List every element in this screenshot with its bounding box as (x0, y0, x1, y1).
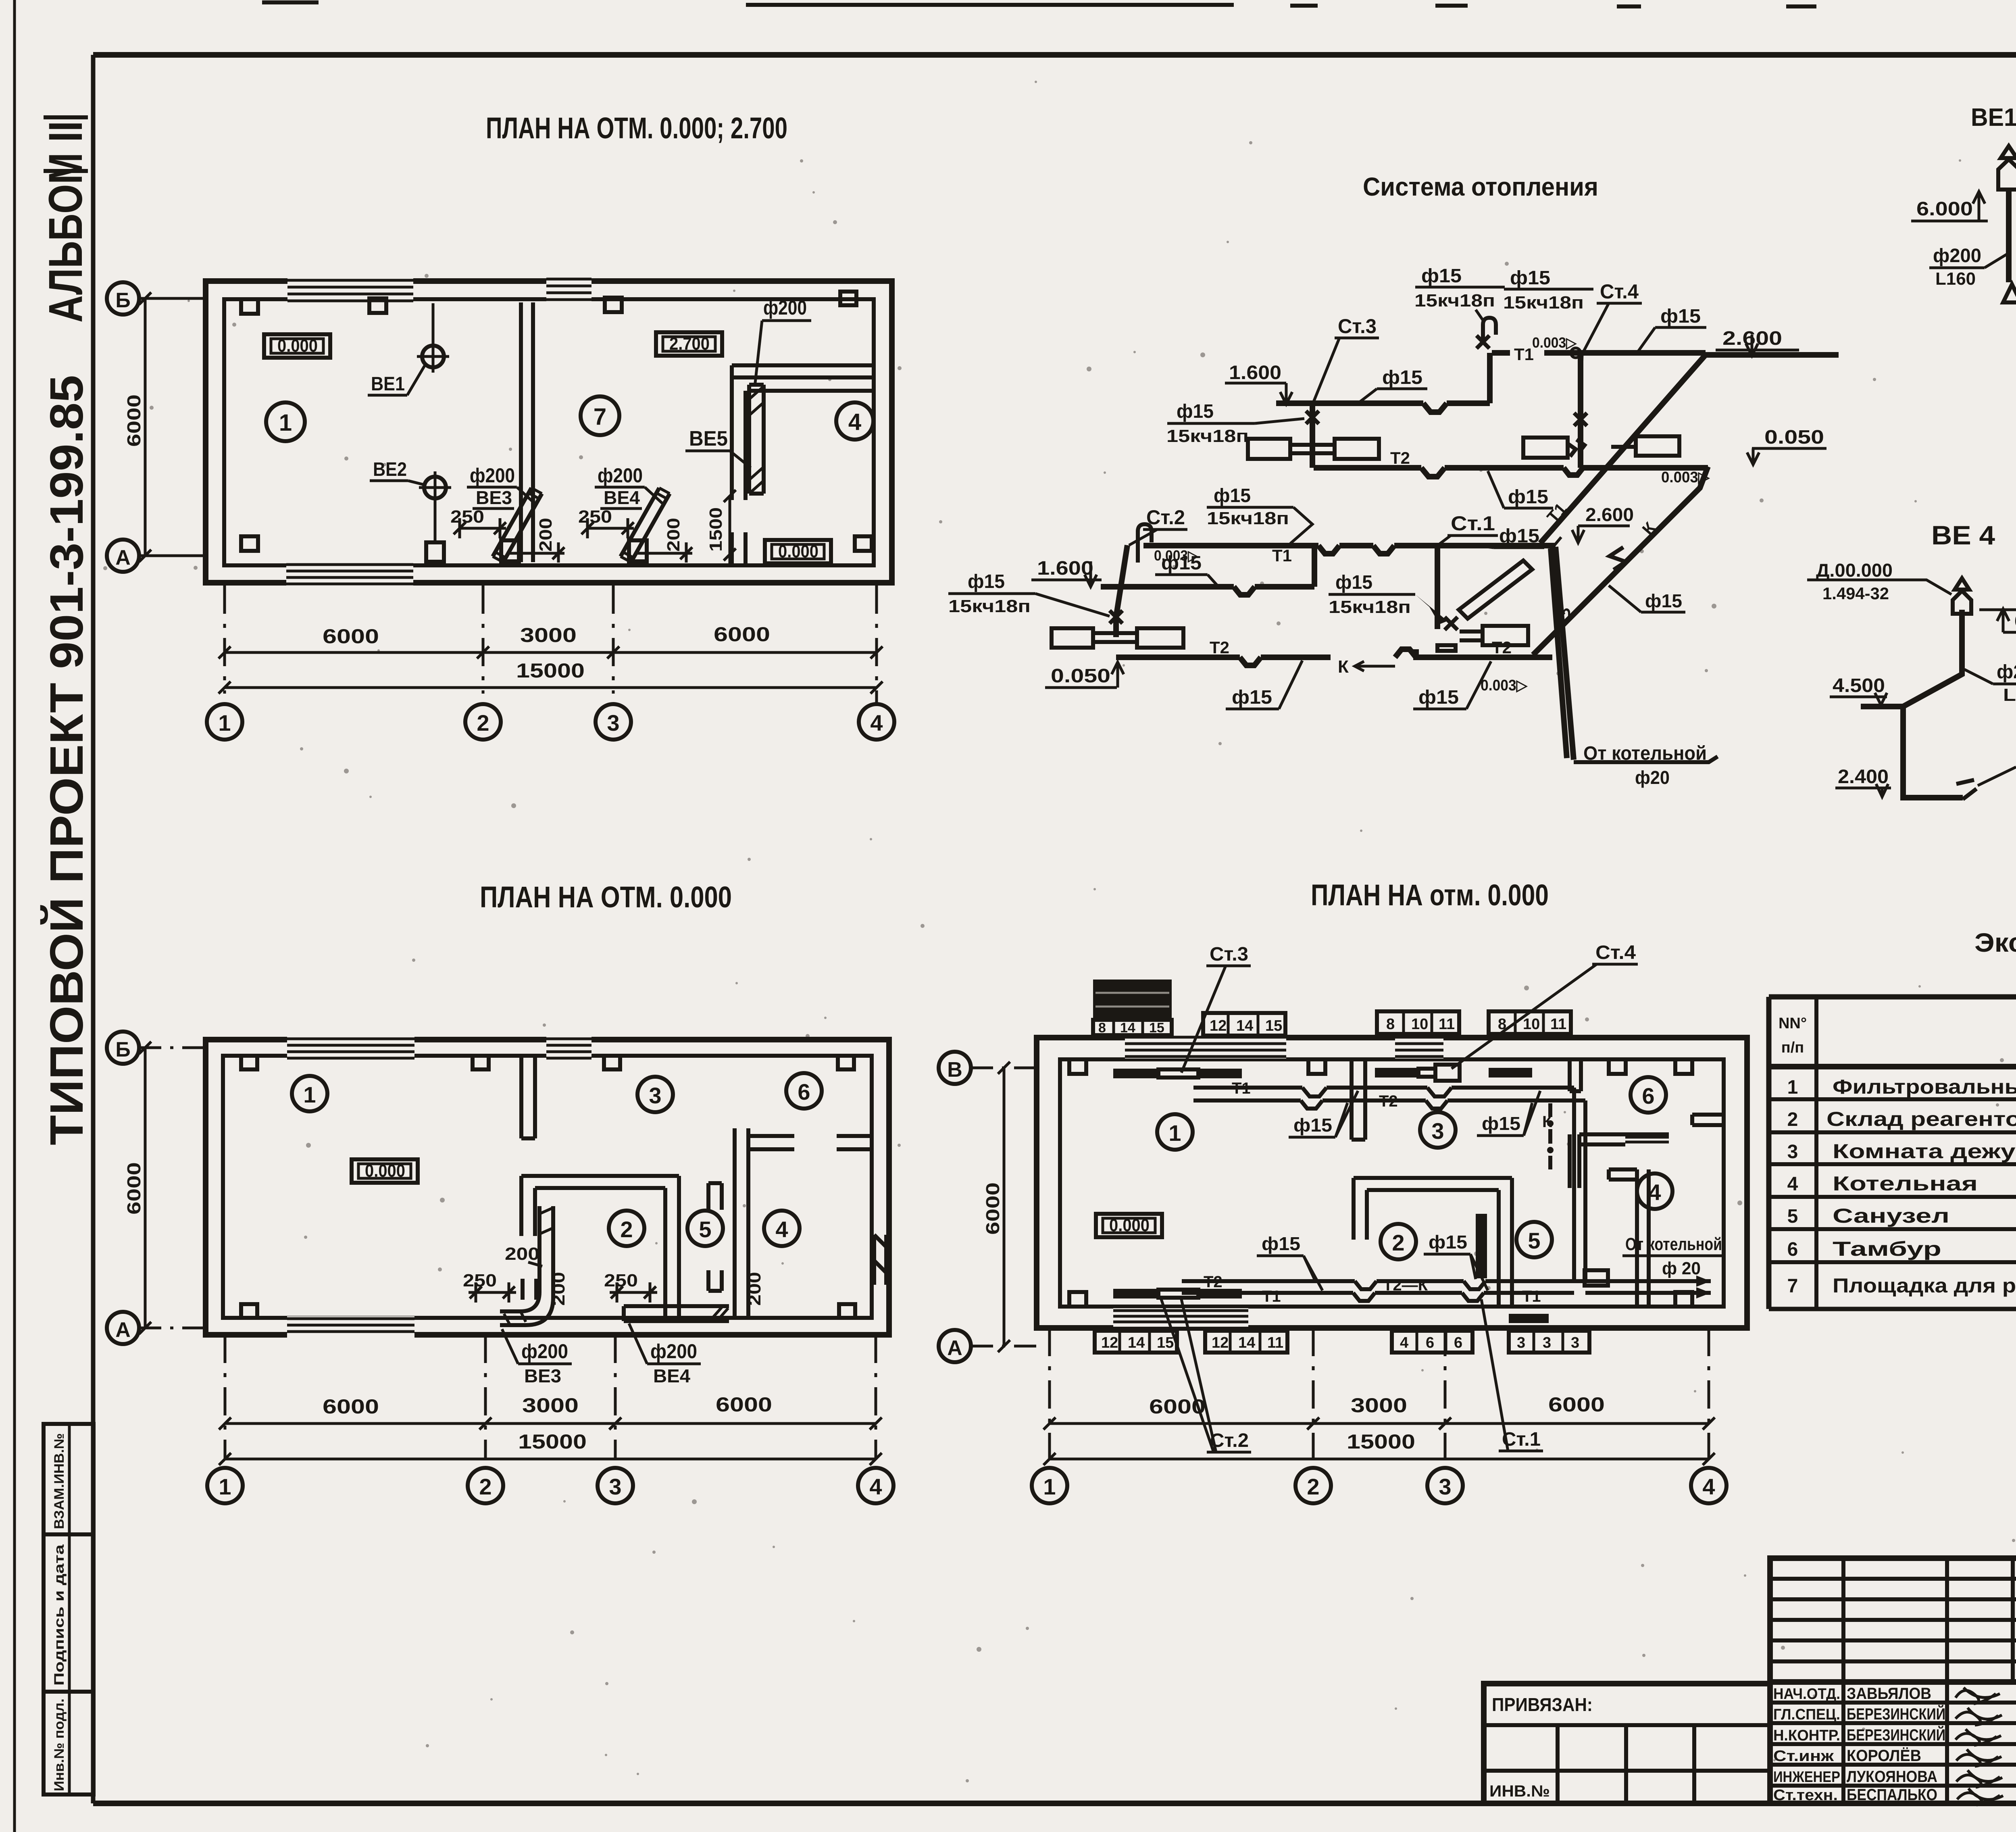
svg-text:ф20: ф20 (1635, 767, 1670, 788)
svg-text:К: К (1338, 657, 1349, 677)
svg-text:15кч18п: 15кч18п (948, 596, 1031, 616)
signature vlines (1843, 1682, 1947, 1803)
svg-text:NN°: NN° (1779, 1015, 1807, 1032)
pilaster bottom b (1675, 1292, 1692, 1307)
svg-text:1: 1 (219, 1474, 231, 1499)
svg-text:Санузел: Санузел (1833, 1205, 1949, 1227)
svg-text:А: А (115, 546, 131, 569)
leader Д BE4 (1897, 580, 1951, 594)
svg-text:Н.КОНТР.: Н.КОНТР. (1773, 1727, 1840, 1744)
pilaster top b (473, 1056, 489, 1069)
leader Ст.3 (1314, 338, 1339, 402)
room circle 3 (637, 1077, 673, 1112)
svg-text:6000: 6000 (123, 394, 144, 447)
svg-text:0.050: 0.050 (1764, 427, 1824, 448)
svg-text:6.000: 6.000 (1916, 198, 1973, 220)
svg-text:6000: 6000 (323, 1395, 379, 1418)
svg-text:0.003▷: 0.003▷ (1532, 334, 1577, 351)
stamp row line 2 (44, 1690, 94, 1694)
svg-text:200: 200 (745, 1272, 764, 1306)
inner wall rectangle (224, 299, 874, 565)
radiator top 4 (1489, 1068, 1532, 1078)
svg-text:15000: 15000 (518, 1430, 587, 1453)
duct BE3 diagonal (493, 488, 542, 562)
axis circle 1 (1032, 1468, 1067, 1503)
small block room5 (1585, 1270, 1608, 1286)
vertical dim line 6000 (139, 292, 206, 562)
axis circle 1 (207, 704, 242, 740)
svg-text:ПРИВЯЗАН:: ПРИВЯЗАН: (1492, 1694, 1593, 1715)
svg-text:250: 250 (578, 507, 612, 527)
duct BE5 vertical (749, 385, 764, 494)
radiator top 1 (1113, 1069, 1158, 1078)
room4 top wall right part (837, 1136, 872, 1149)
leader BE3 (502, 1329, 518, 1364)
svg-text:14: 14 (1238, 1334, 1255, 1351)
svg-text:В: В (947, 1058, 962, 1082)
svg-text:15кч18п: 15кч18п (1166, 426, 1249, 446)
svg-text:От котельной: От котельной (1625, 1234, 1722, 1254)
lower T1 main (1143, 546, 1556, 554)
room2 right wall (1499, 1178, 1512, 1307)
leader left valve (1255, 419, 1304, 423)
Ст.1 riser (1435, 546, 1440, 629)
svg-text:8: 8 (1098, 1020, 1106, 1036)
svg-text:Система отопления: Система отопления (1363, 172, 1598, 201)
leader Ст.4 (1452, 964, 1597, 1069)
svg-text:15кч18п: 15кч18п (1503, 293, 1584, 313)
vertical dim 6000 (998, 1062, 1010, 1352)
svg-text:0.000: 0.000 (778, 542, 818, 561)
svg-text:2.400: 2.400 (1838, 766, 1889, 788)
pilaster bottom b (839, 1304, 855, 1318)
svg-text:ф15: ф15 (1418, 687, 1459, 708)
arrow 1.600 upper (1280, 383, 1292, 404)
room circle 4 (764, 1211, 800, 1246)
spec box bottom 3 (1392, 1331, 1472, 1353)
pilaster top a (1069, 1059, 1086, 1074)
svg-text:6: 6 (798, 1079, 810, 1105)
duct BE4 horizontal (624, 1306, 729, 1321)
pipe bottom to boiler exit (1574, 1281, 1711, 1293)
svg-text:ф15: ф15 (1293, 1115, 1332, 1136)
svg-text:15: 15 (1265, 1017, 1282, 1034)
svg-text:ф200: ф200 (763, 296, 807, 319)
radiator UR box1 (1523, 438, 1568, 458)
svg-text:2: 2 (1787, 1109, 1798, 1130)
svg-text:15000: 15000 (1347, 1430, 1415, 1453)
cane lower T1 left (1138, 524, 1152, 563)
extension dash lines (1050, 1328, 1709, 1460)
svg-text:ВЕ4: ВЕ4 (604, 487, 640, 508)
end tick lower T1 (1549, 537, 1561, 552)
corrections grid hlines (1770, 1579, 2016, 1661)
svg-text:Ст.3: Ст.3 (1210, 944, 1248, 965)
header line stage row (1770, 1679, 2016, 1685)
svg-text:Т2: Т2 (1204, 1273, 1223, 1291)
partition stub rooms 1-3 (1352, 1059, 1365, 1140)
svg-text:ВЕ3: ВЕ3 (476, 487, 512, 508)
frame left (91, 55, 96, 1803)
room circle 6 (1631, 1077, 1666, 1113)
radiator bottom 2 (1198, 1289, 1242, 1298)
svg-text:6000: 6000 (1149, 1395, 1206, 1418)
svg-text:ИНЖЕНЕР: ИНЖЕНЕР (1773, 1769, 1840, 1786)
vent BE1 symbol (417, 340, 449, 373)
svg-text:200: 200 (536, 518, 556, 552)
svg-text:15кч18п: 15кч18п (1329, 597, 1411, 617)
row line 6 (1769, 1260, 2016, 1264)
outer wall rect (206, 1040, 889, 1335)
svg-text:БЕСПАЛЬКО: БЕСПАЛЬКО (1847, 1786, 1937, 1804)
leader far left (1035, 594, 1110, 616)
svg-text:11: 11 (1550, 1016, 1566, 1033)
svg-text:4.500: 4.500 (1833, 675, 1885, 696)
svg-text:200: 200 (505, 1244, 539, 1264)
valve on riser at 3255 (1306, 411, 1319, 424)
frame top (93, 52, 2016, 58)
svg-text:14: 14 (1120, 1020, 1135, 1036)
room2 left wall (1354, 1178, 1367, 1240)
pilaster bottom a (241, 536, 258, 551)
room2 left wall upper (521, 1176, 535, 1236)
svg-text:5: 5 (1787, 1206, 1798, 1227)
svg-text:ф15: ф15 (1382, 367, 1422, 388)
svg-text:ф15: ф15 (1161, 552, 1202, 574)
arrow 2.600 (1746, 335, 1758, 356)
BE4 pipe (1903, 610, 1963, 798)
svg-text:Т2—К: Т2—К (1383, 1276, 1428, 1294)
svg-text:0.000: 0.000 (1109, 1215, 1150, 1235)
dim row2 (219, 1453, 882, 1465)
stamp row line 1 (44, 1532, 94, 1536)
air vent cane St3 (1483, 318, 1496, 343)
room circle 2 (1381, 1224, 1416, 1259)
svg-text:п/п: п/п (1781, 1039, 1804, 1056)
svg-text:ф15: ф15 (1660, 306, 1701, 327)
axis circle 4 (859, 704, 894, 740)
svg-text:ПЛАН НА ОТМ. 0.000; 2.700: ПЛАН НА ОТМ. 0.000; 2.700 (486, 111, 787, 145)
signature squiggle 5 (1956, 1770, 2002, 1787)
pilaster bottom a (1069, 1292, 1086, 1307)
svg-text:ВЕ4: ВЕ4 (653, 1365, 690, 1386)
partition wall room 1-7 (521, 302, 533, 562)
window bottom gap (287, 1316, 414, 1338)
svg-text:НАЧ.ОТД.: НАЧ.ОТД. (1773, 1686, 1840, 1703)
window bottom white gap (286, 562, 413, 586)
svg-text:0.003▷: 0.003▷ (1481, 677, 1528, 694)
svg-text:Тамбур: Тамбур (1833, 1238, 1941, 1260)
row line 3 (1769, 1162, 2016, 1166)
room2 right wall (665, 1176, 679, 1316)
radiator bottom 3 (1509, 1314, 1549, 1323)
svg-text:ф15: ф15 (1499, 525, 1539, 547)
room circle 1 (1157, 1114, 1193, 1150)
svg-text:ф200: ф200 (598, 464, 643, 487)
svg-text:Экспликация помещений: Экспликация помещений (1974, 927, 2016, 957)
svg-text:ВЕ 4: ВЕ 4 (1931, 520, 1995, 550)
header row line (1769, 1064, 2016, 1069)
svg-text:А: А (947, 1336, 962, 1360)
pilaster top right (840, 292, 856, 305)
radiator top 3 (1375, 1068, 1418, 1078)
svg-text:1500: 1500 (706, 507, 726, 552)
arrow up 0.050 (1112, 662, 1124, 688)
wall 5-4 top stub (1609, 1169, 1637, 1180)
svg-text:6000: 6000 (714, 623, 770, 646)
svg-text:15: 15 (1149, 1020, 1164, 1036)
pilaster top c (604, 1056, 620, 1069)
pilaster bottom a (241, 1304, 257, 1318)
svg-text:ф15: ф15 (1177, 401, 1214, 422)
extension dash lines (225, 1335, 876, 1460)
duct BE4 diagonal (621, 488, 670, 562)
window top2 gap (1395, 1034, 1443, 1059)
svg-text:3000: 3000 (1351, 1394, 1407, 1417)
svg-text:К: К (1638, 518, 1660, 538)
axis circle 2 (1295, 1468, 1331, 1503)
vertical dim 6000 (139, 1042, 151, 1334)
spec box top 2 (1377, 1011, 1459, 1034)
pipe T1 1.600 branch upper-left (1276, 403, 1490, 412)
BE4 cowl triangle (1955, 578, 1969, 590)
svg-text:10: 10 (1523, 1016, 1540, 1033)
svg-text:3: 3 (649, 1083, 661, 1108)
svg-text:3: 3 (1517, 1334, 1525, 1351)
svg-text:ф15: ф15 (968, 571, 1005, 592)
leader BE4 (629, 1323, 647, 1364)
svg-text:ф15: ф15 (1645, 590, 1682, 611)
leader Ст.2 (1161, 1299, 1216, 1452)
svg-text:5: 5 (1528, 1228, 1540, 1253)
outer wall rect (1037, 1038, 1747, 1328)
svg-text:Т1: Т1 (1232, 1080, 1251, 1097)
leader Ст.4 (1581, 303, 1609, 411)
svg-text:Т2: Т2 (1210, 638, 1229, 657)
svg-text:Б: Б (115, 289, 130, 312)
duct BE3 inlet box (501, 540, 519, 561)
svg-text:3: 3 (1439, 1474, 1451, 1499)
leader ф200 BE4 (645, 487, 664, 505)
frame bottom (93, 1801, 2016, 1806)
lower-left branch T1 1.600 (1101, 546, 1314, 595)
radiator LL link (1093, 633, 1137, 642)
svg-text:ф15: ф15 (1214, 485, 1251, 506)
leader BE1 (407, 364, 426, 395)
column divider (1814, 997, 1818, 1309)
svg-text:ф200: ф200 (1997, 661, 2016, 683)
svg-text:3: 3 (607, 710, 619, 736)
axis B circle (939, 1052, 971, 1084)
svg-text:Ст.техн.: Ст.техн. (1773, 1787, 1838, 1804)
svg-text:5: 5 (699, 1217, 711, 1242)
vent BE2 symbol (419, 471, 451, 504)
svg-text:ф200: ф200 (521, 1340, 568, 1363)
svg-text:14: 14 (1236, 1017, 1253, 1034)
leader Ст.1 (1481, 1299, 1508, 1451)
radiator top 2 (1198, 1069, 1242, 1078)
pilaster top a (241, 299, 258, 314)
axis circle 4 (858, 1468, 893, 1503)
pipe T2 upper (1314, 468, 1708, 477)
row line 4 (1769, 1195, 2016, 1199)
wall 5-4 (1637, 1169, 1649, 1307)
level box 2.700 room7 (656, 332, 722, 356)
svg-text:БЕРЕЗИНСКИЙ: БЕРЕЗИНСКИЙ (1847, 1705, 1945, 1723)
svg-text:14: 14 (1128, 1334, 1145, 1351)
svg-text:ф200: ф200 (650, 1340, 697, 1363)
duct BE4 inlet box (629, 540, 647, 561)
arrow up 6.000 BE1 (1973, 192, 1985, 221)
svg-text:0.000: 0.000 (277, 336, 318, 356)
svg-text:250: 250 (450, 507, 484, 527)
left stamp box (44, 1424, 94, 1794)
C stub room5 upper (708, 1183, 722, 1210)
svg-text:1.600: 1.600 (1229, 362, 1281, 383)
svg-text:ПЛАН НА отм. 0.000: ПЛАН НА отм. 0.000 (1311, 878, 1549, 912)
svg-text:Т1: Т1 (1262, 1288, 1281, 1305)
svg-text:0.050: 0.050 (1051, 665, 1110, 687)
spec box bottom 4 (1509, 1331, 1589, 1353)
svg-text:Т1: Т1 (1272, 546, 1292, 565)
K hook on diagonal (1610, 547, 1626, 570)
BE1 cowl body (1998, 159, 2016, 190)
inner wall rect (1060, 1059, 1724, 1307)
leader BE2 (408, 481, 424, 485)
svg-text:ВЕ2: ВЕ2 (373, 459, 407, 480)
fitting ring St4 tap (1571, 348, 1581, 358)
signature hlines (1770, 1703, 2016, 1786)
svg-text:ф15: ф15 (1482, 1113, 1520, 1134)
row line 1 (1769, 1097, 2016, 1101)
arrow 0.050 (1747, 448, 1759, 465)
pilaster top c (1609, 1059, 1626, 1074)
svg-text:2: 2 (1392, 1230, 1404, 1255)
radiator UR link jogs (1568, 440, 1636, 456)
svg-text:ВЕ3: ВЕ3 (524, 1365, 561, 1386)
radiator bottom link (1158, 1290, 1198, 1298)
room circle 1 (266, 402, 305, 441)
C stub room5 lower (708, 1270, 722, 1291)
svg-text:1: 1 (218, 710, 231, 736)
dim line row1 (219, 646, 883, 659)
svg-text:ф200: ф200 (1933, 245, 1981, 267)
dim line row2 (219, 682, 883, 694)
svg-text:200: 200 (549, 1272, 569, 1306)
row line 2 (1769, 1130, 2016, 1134)
svg-text:4: 4 (1787, 1173, 1798, 1195)
vent BE2 wall box (426, 542, 444, 562)
svg-text:2: 2 (620, 1217, 633, 1242)
leader to cane (1290, 507, 1312, 544)
sheet left edge line (13, 0, 16, 1832)
label BE5 underline (685, 450, 730, 452)
vent BE2 stem (434, 499, 437, 542)
table left border (1766, 997, 1772, 1309)
svg-text:ф15: ф15 (1429, 1232, 1467, 1253)
svg-text:АЛЬБОМ II: АЛЬБОМ II (39, 121, 92, 323)
window top 1 glazing (287, 280, 413, 301)
corrections grid vlines (1843, 1558, 2013, 1682)
svg-text:6000: 6000 (982, 1182, 1003, 1235)
svg-text:ТИПОВОЙ ПРОЕКТ 901-3-199.85: ТИПОВОЙ ПРОЕКТ 901-3-199.85 (40, 375, 93, 1145)
svg-text:От котельной: От котельной (1583, 743, 1707, 764)
outer wall rectangle (206, 281, 892, 583)
svg-text:6: 6 (1426, 1334, 1434, 1351)
pilaster top d (1675, 1059, 1692, 1074)
svg-text:ВЕ1÷ВЕ2: ВЕ1÷ВЕ2 (1971, 104, 2016, 131)
row line 5 (1769, 1227, 2016, 1231)
room circle 4 (1637, 1173, 1672, 1209)
svg-text:3: 3 (609, 1474, 621, 1499)
ref line 2.600 (1706, 352, 1839, 358)
window top1 gap (1125, 1034, 1286, 1059)
svg-text:4: 4 (1702, 1474, 1715, 1499)
svg-text:11: 11 (1439, 1016, 1455, 1033)
svg-text:ВЕ1: ВЕ1 (371, 373, 405, 395)
radiator UL link (1290, 445, 1335, 453)
axis B circle (107, 282, 139, 315)
svg-text:Ст.3: Ст.3 (1338, 315, 1377, 338)
leader ф200 BE1 (1985, 254, 2007, 268)
svg-text:Комната дежурного: Комната дежурного (1833, 1140, 2016, 1163)
room4 left wall upper (732, 365, 746, 500)
spec box bottom 1 (1095, 1331, 1177, 1353)
stamp bottom white row (1093, 1020, 1172, 1035)
svg-text:Подпись и дата: Подпись и дата (52, 1544, 67, 1686)
leader pair1 (1476, 310, 1485, 323)
svg-text:6: 6 (1787, 1239, 1798, 1260)
axis circle 3 (596, 704, 631, 740)
boiler exit arrows (1696, 1276, 1711, 1298)
svg-text:7: 7 (594, 404, 606, 430)
svg-text:3000: 3000 (520, 624, 577, 646)
Ст.2 riser slant (1116, 545, 1127, 637)
St1 black bar (1476, 1214, 1487, 1278)
axis B dashline (139, 297, 206, 300)
svg-text:6000: 6000 (716, 1393, 772, 1416)
roman numeral bars (44, 117, 88, 171)
room circle 3 (1420, 1112, 1456, 1148)
svg-text:ф15: ф15 (1510, 267, 1550, 289)
svg-text:1: 1 (1043, 1474, 1056, 1499)
svg-text:200: 200 (664, 518, 683, 552)
axis A dashline (139, 554, 206, 557)
svg-text:4: 4 (775, 1217, 788, 1242)
svg-text:15кч18п: 15кч18п (1207, 509, 1289, 528)
pilaster bottom b (855, 536, 872, 551)
radiator LR stub (1437, 632, 1483, 651)
svg-text:ф15: ф15 (1232, 687, 1272, 708)
svg-text:Т2: Т2 (1390, 448, 1410, 467)
BE1 cowl triangle (2001, 146, 2016, 158)
signature block outer (1770, 1682, 2016, 1803)
radiator LL box2 (1137, 628, 1183, 648)
svg-text:4: 4 (1648, 1180, 1661, 1205)
duct parallelogram (1459, 561, 1532, 619)
pipe T1 top (1193, 1088, 1574, 1096)
window top1 gap (287, 1036, 414, 1059)
vent BE1 stem (432, 303, 435, 345)
valve St3 top (1477, 336, 1489, 348)
inner wall rect (223, 1056, 872, 1318)
axis circle 1 (207, 1468, 243, 1503)
diagonal T1 axon (1540, 355, 1706, 543)
svg-text:ф15: ф15 (1335, 572, 1372, 593)
svg-text:ПЛАН НА ОТМ. 0.000: ПЛАН НА ОТМ. 0.000 (480, 880, 732, 914)
svg-text:12: 12 (1210, 1017, 1227, 1034)
pilaster top d (838, 1056, 854, 1069)
